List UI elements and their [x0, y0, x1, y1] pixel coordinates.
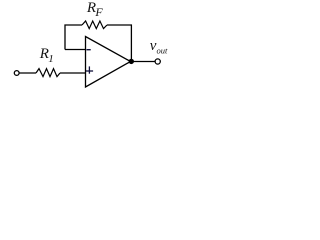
op-amp U1 — [86, 37, 131, 88]
wire feedback right leg — [107, 25, 131, 62]
wire input terminal to R1 — [19, 72, 36, 74]
resistor R1 — [36, 69, 60, 77]
svg-text:F: F — [94, 5, 103, 19]
op-amp inverting input minus sign — [87, 49, 91, 51]
junction dot output node — [129, 59, 134, 64]
wire feedback left leg — [65, 25, 82, 50]
op-amp noninverting input plus sign — [86, 70, 93, 72]
wire op-amp inverting input — [65, 49, 86, 51]
wire output — [131, 61, 154, 63]
wire R1 to op-amp noninverting input — [60, 72, 86, 74]
svg-text:1: 1 — [48, 53, 54, 65]
input terminal circle — [14, 71, 19, 76]
svg-text:out: out — [157, 46, 169, 56]
output terminal circle — [155, 59, 160, 64]
resistor RF — [82, 21, 107, 29]
